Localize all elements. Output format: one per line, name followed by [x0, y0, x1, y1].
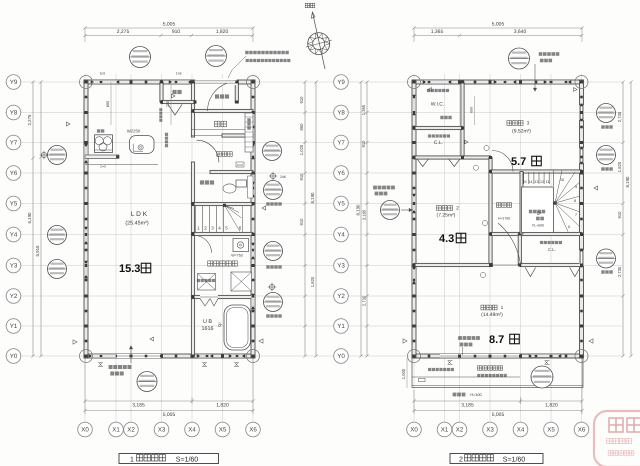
svg-text:X1: X1: [112, 427, 120, 434]
svg-text:Y0: Y0: [10, 353, 18, 360]
svg-text:Y8: Y8: [10, 110, 18, 117]
svg-text:910: 910: [361, 140, 366, 148]
svg-text:15.3: 15.3: [119, 263, 140, 275]
svg-text:X2: X2: [456, 427, 464, 434]
svg-text:Y7: Y7: [337, 140, 345, 147]
svg-text:(14.49m²): (14.49m²): [481, 312, 503, 318]
svg-text:S=1/60: S=1/60: [503, 455, 525, 463]
svg-text:8,190: 8,190: [310, 192, 315, 204]
svg-text:910: 910: [299, 173, 304, 181]
svg-text:U B: U B: [203, 319, 212, 325]
svg-text:2: 2: [456, 206, 459, 212]
svg-text:9: 9: [575, 185, 577, 189]
svg-text:5.7: 5.7: [511, 156, 526, 168]
svg-text:910: 910: [299, 218, 304, 226]
svg-text:(9.52m²): (9.52m²): [512, 129, 531, 135]
svg-text:W.I.C.: W.I.C.: [431, 102, 445, 108]
svg-text:X3: X3: [486, 427, 494, 434]
svg-text:910: 910: [172, 29, 181, 35]
svg-text:5,005: 5,005: [163, 22, 176, 28]
svg-text:H=1700: H=1700: [498, 217, 510, 221]
svg-text:1,820: 1,820: [310, 276, 315, 287]
svg-text:H=100: H=100: [470, 393, 481, 397]
svg-text:1ml: 1ml: [100, 72, 106, 76]
svg-text:8: 8: [574, 199, 576, 203]
svg-text:Y6: Y6: [10, 170, 18, 177]
svg-text:910: 910: [617, 211, 622, 219]
svg-text:D=0: D=0: [100, 165, 106, 169]
svg-text:24K: 24K: [280, 175, 287, 179]
svg-text:Y6: Y6: [337, 170, 345, 177]
svg-text:X0: X0: [410, 427, 418, 434]
svg-text:FL+600: FL+600: [532, 224, 544, 228]
svg-text:1616: 1616: [202, 326, 214, 332]
svg-text:D=2: D=2: [237, 163, 243, 167]
svg-text:X5: X5: [547, 427, 555, 434]
svg-text:5,005: 5,005: [492, 22, 505, 28]
svg-text:650: 650: [470, 107, 474, 113]
svg-text:X4: X4: [188, 427, 196, 434]
svg-text:11: 11: [546, 180, 550, 184]
svg-text:1,820: 1,820: [216, 29, 229, 35]
svg-text:Y9: Y9: [337, 79, 345, 86]
svg-text:X6: X6: [249, 427, 257, 434]
svg-text:860: 860: [299, 123, 304, 131]
svg-text:1,820: 1,820: [216, 403, 229, 409]
svg-text:L D K: L D K: [131, 211, 148, 218]
svg-text:X5: X5: [219, 427, 227, 434]
svg-text:3,185: 3,185: [461, 403, 474, 409]
svg-text:C.L.: C.L.: [434, 140, 443, 146]
svg-text:1,365: 1,365: [361, 104, 366, 115]
svg-text:Y4: Y4: [337, 232, 345, 239]
svg-text:910: 910: [299, 96, 304, 104]
svg-text:14: 14: [529, 180, 533, 184]
svg-text:800: 800: [106, 101, 110, 107]
svg-text:2,730: 2,730: [617, 266, 622, 277]
svg-text:W2250: W2250: [127, 128, 141, 133]
svg-text:8,190: 8,190: [625, 176, 630, 188]
svg-text:8.7: 8.7: [489, 334, 504, 346]
svg-text:Y1: Y1: [10, 323, 18, 330]
svg-text:X2: X2: [127, 427, 135, 434]
svg-text:3,185: 3,185: [132, 403, 145, 409]
svg-text:Y8: Y8: [337, 110, 345, 117]
svg-text:4.3: 4.3: [439, 233, 454, 245]
svg-text:12: 12: [540, 180, 544, 184]
svg-text:13: 13: [535, 180, 539, 184]
svg-text:X4: X4: [517, 427, 525, 434]
svg-text:1ml: 1ml: [176, 72, 182, 76]
svg-text:X3: X3: [158, 427, 166, 434]
svg-text:700: 700: [166, 101, 170, 107]
svg-text:C.L.: C.L.: [548, 247, 556, 252]
svg-text:Y1: Y1: [337, 323, 345, 330]
svg-text:(7.25m²): (7.25m²): [437, 213, 456, 219]
svg-text:5,005: 5,005: [492, 412, 505, 418]
svg-text:Y7: Y7: [10, 140, 18, 147]
svg-text:2,730: 2,730: [362, 295, 367, 306]
svg-text:Y2: Y2: [10, 293, 18, 300]
svg-text:1,820: 1,820: [617, 161, 622, 172]
svg-text:2,730: 2,730: [617, 111, 622, 122]
svg-text:7: 7: [575, 213, 577, 217]
svg-text:X1: X1: [441, 427, 449, 434]
svg-text:2,275: 2,275: [117, 29, 130, 35]
svg-text:8,190: 8,190: [356, 204, 361, 216]
svg-text:5,005: 5,005: [163, 412, 176, 418]
svg-text:1,000: 1,000: [401, 368, 406, 379]
svg-text:2,275: 2,275: [27, 114, 32, 126]
svg-text:Y3: Y3: [10, 263, 18, 270]
svg-text:3,185: 3,185: [362, 209, 367, 220]
svg-text:(25.45m²): (25.45m²): [125, 221, 149, 227]
svg-text:5,915: 5,915: [35, 245, 40, 257]
svg-text:1,365: 1,365: [431, 29, 444, 35]
svg-text:2: 2: [459, 456, 463, 463]
svg-text:6,190: 6,190: [27, 212, 32, 224]
svg-text:Y0: Y0: [337, 353, 345, 360]
svg-text:W=750: W=750: [231, 254, 243, 258]
svg-text:X0: X0: [81, 427, 89, 434]
svg-text:3: 3: [527, 121, 530, 127]
svg-text:Y5: Y5: [337, 201, 345, 208]
svg-text:Y5: Y5: [10, 201, 18, 208]
svg-text:X6: X6: [578, 427, 586, 434]
svg-text:1: 1: [130, 456, 134, 463]
svg-text:Y2: Y2: [337, 293, 345, 300]
svg-text:Y9: Y9: [10, 79, 18, 86]
svg-text:Y4: Y4: [10, 232, 18, 239]
svg-text:1: 1: [501, 305, 504, 311]
svg-text:6: 6: [568, 225, 570, 229]
svg-text:Y3: Y3: [337, 263, 345, 270]
svg-text:15: 15: [523, 180, 527, 184]
svg-text:10: 10: [560, 178, 564, 182]
svg-text:S=1/60: S=1/60: [176, 455, 198, 463]
svg-text:3,640: 3,640: [514, 29, 527, 35]
svg-text:1,020: 1,020: [299, 144, 304, 155]
svg-text:1,820: 1,820: [545, 403, 558, 409]
